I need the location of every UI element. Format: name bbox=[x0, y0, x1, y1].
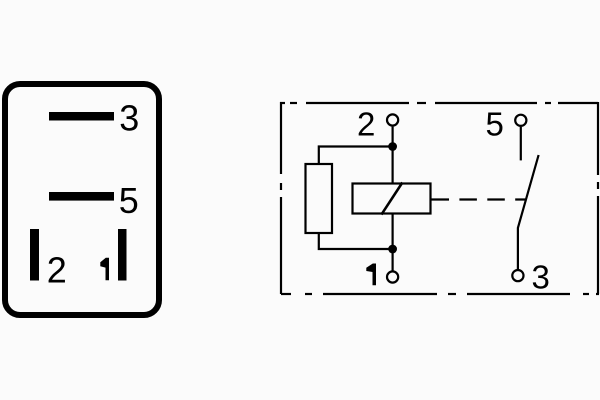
wire: resistor bottom to bottom junction bbox=[319, 233, 393, 249]
coil diagonal stroke bbox=[381, 183, 402, 215]
switch blade (movable contact) bbox=[518, 155, 539, 269]
terminal 5 circle bbox=[515, 115, 526, 126]
resistor R bbox=[306, 164, 333, 233]
svg-text:2: 2 bbox=[47, 250, 67, 291]
wire: coil bottom to terminal 1 bbox=[392, 215, 394, 272]
relay connector body (rounded rectangle) bbox=[5, 84, 159, 315]
wire: terminal 5 fixed contact stub bbox=[520, 127, 522, 160]
svg-text:3: 3 bbox=[119, 98, 139, 139]
junction node (bottom) bbox=[388, 245, 397, 254]
svg-text:2: 2 bbox=[357, 106, 375, 143]
mechanical link (dashed) coil to contact bbox=[432, 198, 527, 200]
pin 2 blade (vertical) bbox=[30, 229, 39, 281]
terminal 1 circle bbox=[387, 271, 398, 282]
svg-text:5: 5 bbox=[119, 180, 139, 221]
relay coil K (rectangle with diagonal) bbox=[353, 184, 431, 214]
junction node (top) bbox=[388, 142, 397, 151]
terminal 3 circle bbox=[512, 270, 523, 281]
wire: top junction to resistor branch bbox=[319, 147, 393, 165]
pin 3 blade (horizontal) bbox=[49, 112, 114, 121]
svg-text:5: 5 bbox=[486, 106, 504, 143]
svg-text:3: 3 bbox=[532, 259, 550, 296]
pin 5 blade (horizontal) bbox=[49, 192, 114, 201]
terminal 2 circle bbox=[387, 114, 398, 125]
terminal label 1 bbox=[366, 264, 376, 286]
pin label 1 bbox=[100, 258, 109, 281]
relay schematic enclosure (dash-dot outline) bbox=[280, 102, 599, 294]
wire: terminal 2 down to coil bbox=[392, 127, 394, 183]
pin 1 blade (vertical) bbox=[118, 229, 127, 281]
